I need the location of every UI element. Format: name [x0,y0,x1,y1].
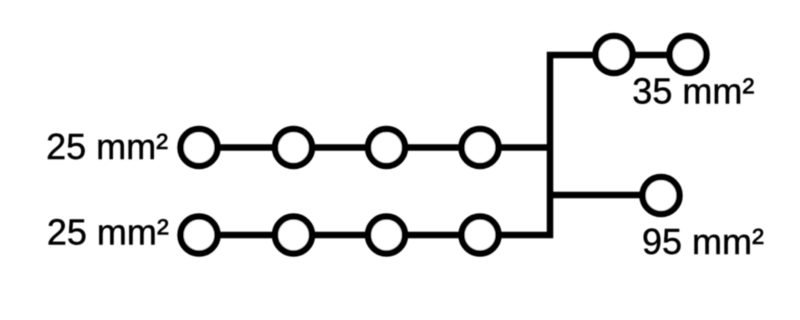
svg-text:35 mm²: 35 mm² [632,71,754,112]
svg-text:25 mm²: 25 mm² [46,126,168,167]
svg-text:95 mm²: 95 mm² [642,221,764,262]
svg-text:25 mm²: 25 mm² [47,211,169,252]
